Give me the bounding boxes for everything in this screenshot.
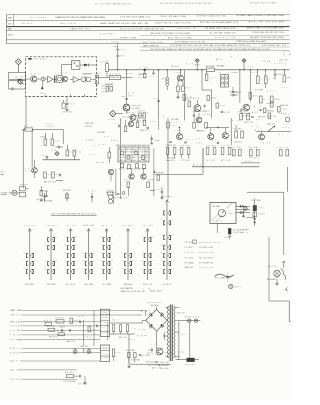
regulator TR20	[151, 344, 172, 355]
svg-text:TONE: TONE	[211, 98, 217, 100]
svg-text:LOOP: LOOP	[224, 237, 229, 239]
svg-text:100u OUT: 100u OUT	[279, 60, 288, 62]
AM converter TR6	[123, 104, 140, 111]
diode D5	[240, 205, 243, 207]
supply rail h2	[110, 333, 135, 335]
svg-text:OSC: OSC	[283, 127, 289, 129]
svg-text:220 TRANS OUT 6.3V 33k: 220 TRANS OUT 6.3V 33k	[175, 41, 205, 44]
svg-text:EXT: EXT	[75, 260, 78, 262]
svg-text:OSC: OSC	[111, 244, 114, 246]
matrix out TR10	[108, 169, 113, 181]
svg-text:PILOT: PILOT	[102, 332, 109, 334]
decoder matrix block	[116, 144, 150, 162]
svg-text:6.3V S1-2: 6.3V S1-2	[46, 225, 57, 227]
svg-text:SEC: SEC	[41, 93, 47, 95]
svg-text:SPK SPK: SPK SPK	[20, 184, 28, 186]
svg-text:10.7: 10.7	[210, 77, 216, 79]
svg-text:8ohm: 8ohm	[287, 77, 292, 79]
svg-text:GND 455k 6.3V POWER 220 455k H: GND 455k 6.3V POWER 220 455k HEAT	[150, 32, 191, 35]
ratio detector transformer IFT4	[220, 71, 229, 87]
supply extra text	[112, 320, 169, 370]
matrix lower parts row	[119, 164, 146, 171]
TR label left of bus	[102, 85, 111, 93]
svg-text:117V: 117V	[251, 72, 257, 74]
svg-text:OUT: OUT	[120, 56, 125, 58]
svg-text:8ohm: 8ohm	[203, 114, 211, 116]
svg-text:10.7 8ohm: 10.7 8ohm	[185, 257, 195, 259]
svg-text:OUT R101 DIAL POWER IFT DIAL 6: OUT R101 DIAL POWER IFT DIAL 6.3V SEC 1M…	[150, 48, 271, 51]
wiring table frame	[7, 15, 290, 51]
svg-text:6.3V: 6.3V	[121, 268, 124, 270]
tuner signal path wire	[26, 78, 96, 81]
crystal network below tuner	[60, 97, 76, 114]
switch wafer S1-8	[160, 196, 174, 286]
svg-text:10.7 117V 2SB77 GND AM GND 117: 10.7 117V 2SB77 GND AM GND 117V	[95, 2, 132, 5]
right lower resistors	[266, 102, 287, 119]
decoder input cluster	[40, 133, 63, 148]
thick ground bus	[202, 148, 204, 167]
ground lead under lamp	[242, 210, 245, 218]
output emitter resistors	[206, 145, 231, 162]
wire x168 upper with resistor	[163, 116, 177, 140]
bias resistor row right	[232, 146, 289, 159]
bridge left lead	[143, 320, 146, 323]
AM conv TR5	[240, 104, 251, 117]
tuner output filter	[94, 73, 100, 86]
svg-text:IFT: IFT	[121, 252, 124, 254]
feed resistor R30 on wire	[22, 123, 63, 131]
svg-text:R101: R101	[220, 105, 226, 107]
TB2 side resistor	[112, 349, 121, 361]
audio return wire	[192, 164, 259, 167]
svg-text:8ohm PILOT: 8ohm PILOT	[166, 160, 175, 162]
svg-text:100u: 100u	[46, 123, 53, 125]
svg-text:B+ 4.7k: B+ 4.7k	[214, 221, 222, 223]
right top band extra text	[186, 56, 281, 65]
table row 4 text	[8, 31, 284, 36]
svg-text:LOOP: LOOP	[17, 335, 23, 337]
svg-text:6.3V TR7 8ohm 6BA6 4.7k: 6.3V TR7 8ohm 6BA6 4.7k	[120, 15, 151, 18]
mixer coil T1	[41, 77, 45, 81]
right edge parts	[281, 70, 292, 89]
svg-text:0.02: 0.02	[178, 351, 184, 353]
pilot lamp LP2	[229, 284, 241, 288]
bottom row parts	[63, 371, 87, 385]
TR9 area extra	[114, 112, 157, 128]
transformer primary winding	[166, 307, 169, 358]
svg-text:TR7: TR7	[93, 268, 96, 270]
matrix out TR12	[141, 169, 154, 188]
svg-text:EXT 4.7k: EXT 4.7k	[239, 111, 248, 113]
terminal row k	[10, 369, 77, 372]
output TR16	[222, 133, 228, 139]
right vertical to jack	[283, 192, 285, 255]
svg-text:117V: 117V	[93, 252, 96, 254]
left input resistor chain	[231, 118, 243, 145]
svg-text:OUT: OUT	[124, 179, 130, 181]
svg-text:FUSE: FUSE	[107, 190, 114, 192]
svg-text:6.3V: 6.3V	[60, 100, 68, 102]
svg-text:2SB77 TR7 B+ 2SB77 PU PU: 2SB77 TR7 B+ 2SB77 PU PU	[155, 22, 191, 24]
AGC line with resistor R8	[97, 72, 133, 79]
svg-text:IFT: IFT	[10, 339, 15, 341]
svg-text:10.7: 10.7	[171, 252, 174, 254]
output TR15	[208, 134, 214, 140]
crossing verticals	[84, 309, 108, 346]
filter resistor Rc	[126, 325, 138, 334]
svg-text:33k 4.7k: 33k 4.7k	[240, 232, 248, 234]
svg-text:117V: 117V	[42, 155, 47, 157]
AM osc TR7	[127, 111, 146, 123]
svg-text:LOOP: LOOP	[48, 174, 53, 176]
meter bottom lead	[216, 223, 218, 232]
svg-text:SPK LOOP: SPK LOOP	[258, 117, 265, 119]
switch wafer S1-4	[82, 224, 96, 286]
svg-text:SW LOOP: SW LOOP	[137, 120, 146, 122]
wire AFC to varicap	[61, 65, 71, 76]
svg-text:4.7k: 4.7k	[51, 150, 56, 152]
svg-text:117V TR7: 117V TR7	[221, 145, 231, 147]
svg-text:PILOT: PILOT	[157, 189, 162, 191]
AM line label	[241, 161, 260, 163]
svg-text:IFT SPK: IFT SPK	[234, 129, 242, 131]
svg-text:117V EXT C204 OUT VOL: 117V EXT C204 OUT VOL	[196, 16, 227, 18]
resistor R21	[256, 70, 266, 84]
svg-text:DET 33k OSC: DET 33k OSC	[143, 42, 164, 44]
svg-text:33k: 33k	[100, 62, 105, 64]
svg-text:R101: R101	[44, 260, 47, 262]
junction node inside tuner	[41, 81, 47, 95]
svg-text:100u: 100u	[82, 268, 85, 270]
terminal block TB1	[101, 309, 110, 337]
right edge vertical wire	[286, 167, 288, 192]
driver TR14	[173, 128, 183, 140]
wire v3	[62, 130, 64, 145]
svg-text:OUT: OUT	[75, 244, 78, 246]
wire verticals below matrix	[116, 148, 154, 196]
svg-text:117V FUSE TR7 SEC 100u IFT DET: 117V FUSE TR7 SEC 100u IFT DET GND 455k …	[170, 44, 251, 47]
wire center vertical	[120, 118, 122, 199]
transistor TR8	[32, 160, 38, 178]
wire left vertical v1	[22, 130, 24, 189]
resistor R25	[270, 96, 279, 103]
resistor R22	[264, 70, 275, 88]
svg-text:SW 1M 0.02 PRI 1M: SW 1M 0.02 PRI 1M	[199, 242, 221, 244]
tuner label marker	[28, 58, 46, 61]
svg-text:LOOP: LOOP	[175, 72, 182, 74]
svg-text:SW: SW	[70, 152, 76, 154]
cap C31	[274, 70, 282, 79]
svg-text:DET: DET	[160, 244, 163, 246]
svg-text:OUT: OUT	[160, 219, 163, 221]
svg-text:OSC VOL: OSC VOL	[55, 317, 64, 319]
svg-text:FUSE: FUSE	[108, 119, 115, 121]
decoder matrix left resistor	[108, 147, 111, 163]
label mid	[111, 139, 118, 142]
svg-text:TONE 4.7k FM: TONE 4.7k FM	[120, 38, 136, 40]
IF coil L5	[162, 70, 169, 90]
svg-text:0.02: 0.02	[23, 260, 26, 262]
bottom small text pair	[240, 230, 250, 235]
supply rail h1	[110, 322, 143, 324]
svg-text:1M: 1M	[75, 252, 77, 254]
terminal row b	[10, 315, 140, 317]
svg-text:VOL: VOL	[259, 208, 265, 210]
svg-text:GND: GND	[8, 17, 12, 19]
svg-text:100u 100u: 100u 100u	[180, 145, 190, 147]
switch wafer S1-5	[100, 225, 114, 286]
switch note text underlined	[51, 212, 97, 215]
tone amp TR17	[255, 129, 265, 140]
terminal row j	[10, 360, 100, 363]
svg-text:0.02: 0.02	[224, 112, 230, 114]
svg-text:EXT HEAT AC 33k: EXT HEAT AC 33k	[262, 44, 286, 47]
lamp X1 on row	[73, 350, 77, 354]
svg-text:GND: GND	[100, 252, 103, 254]
filter resistor Rb	[120, 325, 122, 334]
svg-text:TAPE PU BAL LOOP 1M LAMP DIAL: TAPE PU BAL LOOP 1M LAMP DIAL	[246, 27, 285, 30]
MPX label	[25, 169, 33, 174]
coupling coil above col5	[106, 191, 116, 204]
AM antenna feed cap	[112, 42, 126, 70]
svg-text:0.02: 0.02	[76, 152, 81, 154]
svg-text:SEC 455k: SEC 455k	[60, 23, 77, 25]
svg-text:TAPE TONE OSC: TAPE TONE OSC	[143, 44, 160, 47]
switch wafer S1-6	[121, 225, 135, 286]
bridge rectifier D7-D10	[146, 310, 168, 332]
svg-text:0.02: 0.02	[171, 122, 177, 124]
meter connection wires	[236, 206, 250, 212]
svg-text:LOOP 8ohm: LOOP 8ohm	[266, 111, 275, 113]
svg-text:B+ 1M GND LAMP OUT: B+ 1M GND LAMP OUT	[210, 32, 237, 35]
svg-text:POWER: POWER	[266, 103, 271, 105]
table row 1 text	[8, 14, 284, 19]
svg-text:LOOP 2SB77: LOOP 2SB77	[47, 284, 56, 286]
osc TR2	[62, 73, 70, 82]
svg-text:POWER: POWER	[17, 339, 23, 341]
amp stage triangle A2	[73, 77, 79, 83]
svg-text:C204 IFT 33k: C204 IFT 33k	[199, 252, 213, 254]
svg-text:FM SEC: FM SEC	[171, 66, 180, 68]
svg-text:FM FUSE C204 IFT TAPE: FM FUSE C204 IFT TAPE	[250, 2, 277, 5]
svg-text:TONE: TONE	[140, 329, 146, 331]
svg-text:EXT VOL DET TAPE SEC 455k 6.3V: EXT VOL DET TAPE SEC 455k 6.3V PRI AC R1…	[160, 2, 213, 5]
power supply label	[121, 289, 163, 293]
IF transformer IFT1	[54, 74, 62, 83]
row components r1	[55, 316, 84, 324]
antenna input shield box	[9, 72, 26, 90]
terminal row c	[10, 321, 100, 324]
svg-text:10.7 0.02: 10.7 0.02	[206, 160, 215, 162]
svg-text:C204 TR7 BAL TONE: C204 TR7 BAL TONE	[160, 15, 187, 18]
terminal row f	[10, 335, 100, 337]
svg-text:8ohm: 8ohm	[196, 143, 202, 145]
svg-text:2SB77: 2SB77	[228, 213, 235, 215]
svg-text:AGC: AGC	[111, 139, 118, 142]
svg-text:220 8ohm: 220 8ohm	[234, 142, 243, 144]
speaker return wiring corner	[269, 287, 291, 321]
svg-text:AVC 1M 0.02 BAL: AVC 1M 0.02 BAL	[168, 36, 193, 39]
right mid extra parts	[258, 108, 266, 119]
svg-text:0.02 EXT: 0.02 EXT	[100, 33, 115, 35]
parts below crystal	[224, 236, 231, 239]
svg-text:R101: R101	[100, 236, 103, 238]
svg-text:LOOP: LOOP	[113, 46, 117, 48]
table row 2 text	[8, 21, 284, 25]
parts near jack	[37, 186, 54, 203]
svg-text:50V 117V LOOP: 50V 117V LOOP	[147, 302, 161, 304]
svg-text:EXT: EXT	[128, 96, 133, 98]
terminal row h	[10, 347, 100, 350]
svg-text:TRANS 1M 220 TONE OSC TRANS 2S: TRANS 1M 220 TONE OSC TRANS 2SB77 DIAL T…	[55, 16, 106, 19]
svg-text:220: 220	[171, 244, 174, 246]
svg-text:0.02: 0.02	[132, 252, 135, 254]
junction J1 on bus	[140, 68, 149, 78]
svg-text:OUT: OUT	[17, 379, 23, 381]
page header tiny text	[95, 2, 277, 6]
power switch S2	[185, 358, 199, 366]
svg-text:TONE: TONE	[140, 335, 147, 337]
terminal row g	[10, 339, 100, 341]
svg-text:TAPE SPK VOL: TAPE SPK VOL	[70, 28, 91, 31]
ferrite antenna coil L1	[16, 75, 24, 84]
secondary voltage labels	[178, 334, 186, 354]
audio return wire lower	[155, 166, 204, 174]
svg-text:TR7: TR7	[56, 74, 62, 76]
switch wire down	[189, 323, 191, 358]
svg-text:OSC 33k: OSC 33k	[65, 225, 76, 227]
tuner bottom pin ticks	[45, 94, 85, 96]
svg-text:GND SPK: GND SPK	[185, 364, 195, 366]
wire tuner to decoder	[22, 97, 26, 130]
svg-text:SPK: SPK	[171, 125, 177, 127]
svg-text:1M 4.7k: 1M 4.7k	[101, 225, 112, 227]
svg-text:IFT: IFT	[64, 236, 67, 238]
svg-text:50V: 50V	[34, 268, 37, 270]
svg-text:TONE: TONE	[102, 91, 108, 93]
resistor R24	[259, 96, 269, 103]
svg-text:0.02: 0.02	[10, 326, 15, 328]
fuse F1 line	[180, 316, 201, 323]
lamp X2 on row	[80, 345, 91, 354]
crystal Y1	[228, 228, 247, 234]
AF preamp TR13 cluster	[193, 110, 211, 132]
bridge feed bend	[140, 311, 146, 317]
svg-text:PU: PU	[34, 252, 37, 254]
switch wafer S1-7	[141, 225, 155, 286]
hline meter top right	[247, 191, 284, 193]
svg-text:OUT: OUT	[44, 268, 47, 270]
svg-text:EXT 0.02: EXT 0.02	[221, 160, 230, 162]
svg-text:LOOP: LOOP	[148, 179, 154, 181]
de-emphasis parts	[150, 171, 162, 191]
bridge bottom lead	[156, 331, 158, 344]
IF coil cluster T2	[81, 73, 92, 82]
svg-text:LOOP: LOOP	[55, 260, 58, 262]
svg-text:LOOP: LOOP	[77, 316, 84, 318]
svg-text:C204: C204	[171, 260, 174, 262]
svg-text:SW: SW	[10, 330, 15, 332]
svg-text:OSC: OSC	[267, 91, 274, 93]
svg-text:VOL 2SB77: VOL 2SB77	[123, 117, 133, 119]
table right rows 6-7 text	[143, 40, 286, 51]
terminal band extra parts	[44, 319, 97, 343]
svg-text:OUT: OUT	[281, 87, 288, 89]
parts right of matrix bottom	[157, 187, 164, 199]
diode D1 arrow	[80, 64, 97, 67]
wire x250 with resistor R23	[249, 70, 258, 102]
svg-text:TONE 2SB77 B+: TONE 2SB77 B+	[176, 28, 197, 30]
decoder wire h1	[43, 159, 80, 161]
decoder band extra text	[85, 122, 111, 164]
filter cap C51	[147, 349, 153, 355]
svg-text:S1-2: S1-2	[75, 268, 78, 270]
bus junction cluster labels	[139, 69, 158, 80]
svg-text:LOOP: LOOP	[17, 326, 23, 328]
TR4 extra parts	[184, 98, 209, 112]
terminal row e	[10, 329, 100, 332]
svg-text:455k: 455k	[282, 109, 287, 111]
AM loop antenna diamond	[108, 111, 123, 122]
svg-text:ANT: ANT	[8, 34, 14, 37]
svg-text:220: 220	[34, 260, 37, 262]
svg-text:FM: FM	[10, 335, 15, 337]
svg-text:POWER: POWER	[155, 140, 160, 142]
wire left vertical v2	[31, 130, 33, 168]
svg-text:LOOP: LOOP	[102, 358, 109, 360]
IF stage small parts mid	[207, 96, 230, 114]
19kHz filter diamond	[51, 150, 59, 156]
AC line bottom	[127, 334, 170, 370]
row components r2	[47, 325, 98, 332]
svg-text:SEC POWER: SEC POWER	[206, 66, 216, 68]
svg-text:C204 B+: C204 B+	[138, 111, 146, 113]
terminal row l	[10, 379, 77, 381]
svg-text:OSC: OSC	[152, 236, 155, 238]
svg-text:PILOT TONE: PILOT TONE	[252, 200, 261, 202]
headphone jack J3	[267, 261, 286, 285]
B+ bus wire	[108, 69, 290, 71]
svg-text:6.3V: 6.3V	[154, 98, 158, 100]
svg-text:OUT: OUT	[203, 110, 209, 112]
svg-text:PU: PU	[141, 268, 144, 270]
driver emitter resistors	[166, 144, 191, 162]
svg-text:10.7: 10.7	[92, 329, 98, 331]
cap C28	[232, 87, 241, 94]
audio band extra text	[171, 118, 289, 145]
svg-text:OUT R101: OUT R101	[123, 225, 134, 227]
svg-text:1M HEAT GND TAPE 455k: 1M HEAT GND TAPE 455k	[205, 27, 235, 30]
RF amp TR1	[31, 73, 40, 82]
svg-text:455k: 455k	[112, 42, 119, 44]
svg-text:TONE: TONE	[121, 96, 125, 98]
svg-text:OSC LOOP ANT AM HEAT FM SEC 0.: OSC LOOP ANT AM HEAT FM SEC 0.02 R101	[51, 212, 96, 215]
AM osc coil parts	[105, 83, 113, 91]
terminal block TB2	[101, 345, 110, 361]
svg-text:PILOT: PILOT	[120, 49, 126, 51]
svg-text:OUT: OUT	[111, 268, 114, 270]
terminal band extra verticals	[75, 311, 94, 353]
svg-text:VOL: VOL	[17, 315, 23, 317]
svg-text:POWER: POWER	[1, 193, 8, 195]
svg-text:TRANS 8ohm 6BA6 8ohm AVC: TRANS 8ohm 6BA6 8ohm AVC	[236, 40, 267, 43]
svg-text:DET C204: DET C204	[177, 313, 185, 315]
svg-text:LAMP 6BA6 SW 1M DET BAL SEC SW: LAMP 6BA6 SW 1M DET BAL SEC SW	[100, 22, 148, 25]
svg-text:OSC OSC: OSC OSC	[63, 112, 73, 114]
svg-text:117V IFT B+: 117V IFT B+	[199, 267, 213, 269]
matrix out TR11	[124, 169, 134, 188]
power transformer T10 core	[170, 305, 172, 362]
